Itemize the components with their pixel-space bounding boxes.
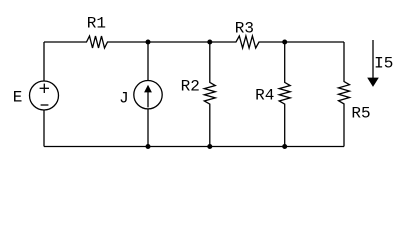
svg-text:R5: R5 [351, 105, 370, 123]
svg-text:E: E [13, 88, 23, 106]
svg-text:R2: R2 [181, 77, 200, 95]
svg-text:I5: I5 [374, 55, 393, 73]
svg-text:R1: R1 [87, 15, 106, 33]
svg-text:R3: R3 [235, 19, 254, 37]
svg-text:J: J [119, 89, 129, 107]
svg-text:R4: R4 [255, 86, 274, 104]
